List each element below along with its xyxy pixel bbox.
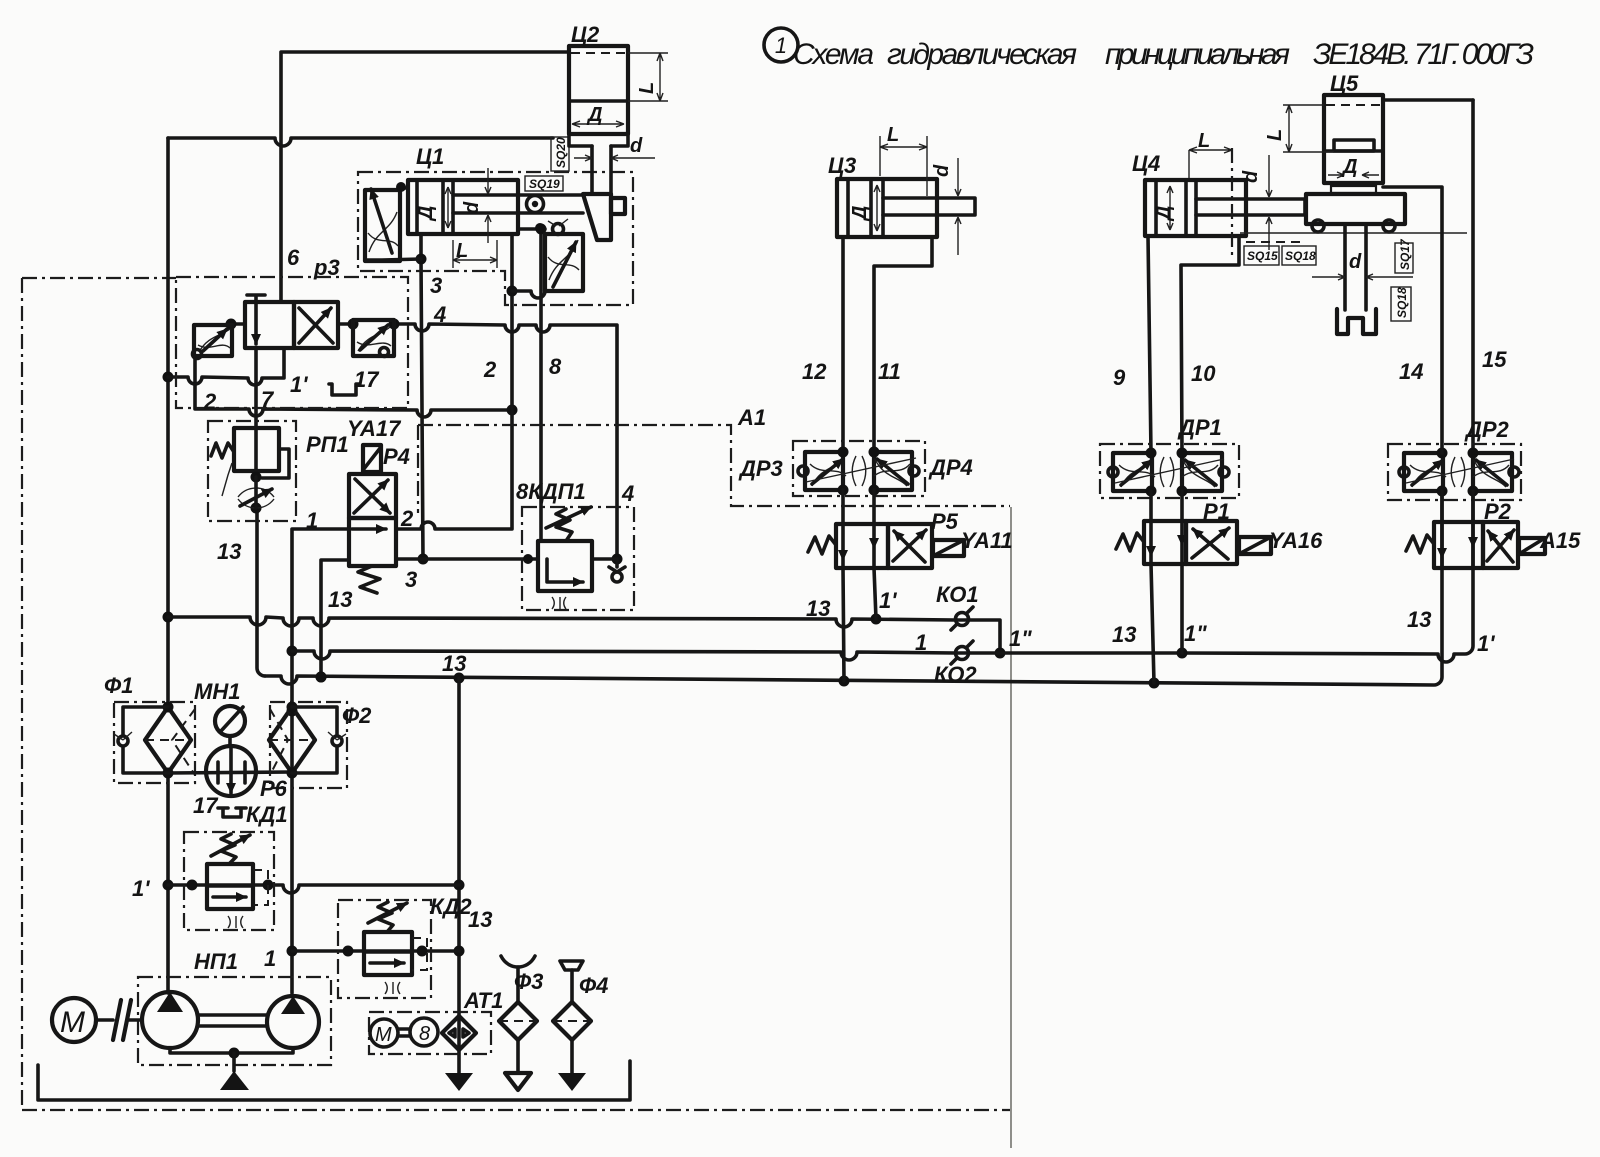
svg-text:L: L (456, 240, 468, 262)
svg-text:1': 1' (1477, 631, 1495, 656)
svg-text:РП1: РП1 (306, 432, 349, 457)
cylinder Ц2 body (569, 46, 628, 134)
node KD2 left (343, 946, 354, 957)
node KO1 to KO2 junction (995, 648, 1006, 659)
svg-text:1": 1" (1184, 621, 1207, 646)
svg-text:принципиальная: принципиальная (1105, 38, 1290, 71)
cylinder Ц5 L dimension (1283, 105, 1334, 152)
cylinder Ц5 carriage (1306, 194, 1405, 224)
svg-text:2: 2 (400, 506, 414, 531)
svg-text:1': 1' (132, 876, 150, 901)
pump unit НП1 dash-dot enclosure (138, 977, 331, 1065)
paper crease line (1010, 507, 1012, 1148)
svg-text:1: 1 (775, 33, 787, 58)
wire: P4 port 1 line down to bus2 and filter F2 pump line 1 (292, 529, 349, 993)
КД2 pilot box dashed (412, 938, 427, 970)
drawing frame dash-dot left (21, 278, 23, 1110)
node line8 top (536, 224, 547, 235)
svg-text:р3: р3 (313, 255, 340, 280)
node P4 13 joins bus3 (316, 672, 327, 683)
cylinder Ц5 fork (1337, 309, 1376, 334)
svg-text:АТ1: АТ1 (463, 988, 503, 1013)
wire: line 3 from C1 cap end down to P4 port3/8KDP1, hops over 4,2',1 lines (421, 234, 423, 559)
breather filter Ф3 (501, 956, 535, 967)
svg-text:d: d (461, 201, 483, 214)
wire: RP1 output line 13 down to bus3 (257, 508, 265, 676)
svg-text:НП1: НП1 (194, 949, 238, 974)
svg-text:4: 4 (621, 481, 634, 506)
svg-text:Д: Д (1341, 156, 1357, 178)
svg-text:13: 13 (806, 596, 830, 621)
cylinder Ц2 L dimension (628, 53, 668, 101)
gauge selector Р6 (206, 746, 256, 796)
node line3 at left throttle join (416, 254, 427, 265)
wire: line 4 from P3 right port to 8KDP1 right side, hops over 3,2,8 (394, 324, 617, 559)
filter Ф2 dash-dot enclosure (270, 702, 347, 788)
svg-text:2: 2 (203, 389, 217, 414)
Р2 spring (1406, 535, 1434, 553)
svg-text:13: 13 (1112, 622, 1136, 647)
relief valve КД2 dash-dot enclosure (338, 900, 431, 998)
svg-text:Ф2: Ф2 (342, 703, 372, 728)
svg-text:M: M (375, 1024, 392, 1046)
tank outline (38, 1061, 630, 1100)
svg-text:Р5: Р5 (931, 509, 959, 534)
КД2 drain bracket (385, 982, 400, 994)
svg-text:3: 3 (405, 567, 417, 592)
node line2/line from P3 (507, 405, 518, 416)
wire: left flow control bottom to line 3 (365, 259, 421, 261)
valve Р3 dash-dot enclosure (176, 277, 408, 408)
node KD1 left (187, 880, 198, 891)
svg-text:12: 12 (802, 359, 827, 384)
svg-text:13: 13 (468, 907, 492, 932)
wire: P3 port 1' to line 1' with hops over ports 2 and 7 (168, 348, 284, 385)
wire: P3 port 2 line down and right to line 2 (to C1 rod side) (195, 358, 512, 417)
flow control valve right of Ц1 (with check bypass) (518, 227, 545, 231)
node line3 at P4/8KDP1 (418, 554, 429, 565)
filter Ф1 diamond (145, 707, 191, 773)
node bus3 at AT1 branch (454, 673, 465, 684)
svg-text:КД1: КД1 (246, 802, 288, 827)
node F2 top (287, 706, 298, 717)
svg-text:Ф4: Ф4 (579, 973, 608, 998)
cylinder Ц5 d dimension (1312, 274, 1413, 280)
coupling (96, 1018, 140, 1022)
suction line to tank (170, 1048, 293, 1053)
bus 2 (line 1 pump2 pressure) with hops (292, 100, 1473, 662)
pump 1 (142, 992, 198, 1048)
svg-text:ДР1: ДР1 (1177, 415, 1222, 440)
svg-text:КО1: КО1 (936, 582, 979, 607)
throttle block ДР3/ДР4 dash-dot enclosure (793, 441, 925, 496)
electric motor M (52, 998, 96, 1042)
svg-text:15: 15 (1482, 347, 1507, 372)
throttle left of Р3 (194, 325, 232, 356)
svg-text:Р4: Р4 (383, 444, 410, 469)
throttle ДР1 left (1113, 453, 1152, 491)
wire: Р5 lines down to buses (843, 568, 844, 681)
svg-text:13: 13 (328, 587, 352, 612)
node bus1 left end (163, 612, 174, 623)
flow control valve left of Ц1 (365, 190, 400, 261)
Р5 spring (808, 536, 836, 554)
cylinder Ц1 rod d dimension (487, 168, 489, 243)
svg-text:ДР3: ДР3 (738, 456, 783, 481)
pump 2 (267, 996, 319, 1048)
wire: 8КДП1 outlet right (592, 559, 617, 567)
svg-text:2: 2 (483, 357, 497, 382)
throttle ДР3 (805, 452, 843, 490)
svg-text:d: d (1240, 170, 1262, 183)
svg-text:9: 9 (1113, 365, 1126, 390)
АТ1 fan pump (410, 1018, 438, 1046)
valve Р3 left side port link (231, 322, 245, 326)
node bus3 at P1 13 (1149, 678, 1160, 689)
solenoid valve Р4 solenoid YA17 (363, 445, 381, 472)
node on line 1' at y377 (163, 372, 174, 383)
wire: line 8 from C1 rod throttle top to valve 8KDP1 (539, 229, 543, 541)
wire: Ц5 rod side port to line 14 (1383, 187, 1442, 453)
svg-text:d: d (931, 164, 953, 177)
node bus3 at P4 line (316, 672, 327, 683)
svg-text:Ц3: Ц3 (828, 153, 856, 178)
wire: Р1 lines down to buses (1151, 564, 1154, 683)
svg-text:1: 1 (264, 946, 276, 971)
cylinder Ц2 d dimension (574, 155, 655, 161)
svg-text:1': 1' (879, 588, 897, 613)
cylinder Ц1 body (408, 180, 518, 234)
tank symbol below АТ1 (445, 1073, 473, 1091)
title circled 1 (764, 28, 798, 62)
throttle ДР2 left (1404, 453, 1443, 491)
svg-text:Ц1: Ц1 (416, 144, 444, 169)
svg-text:13: 13 (217, 539, 241, 564)
svg-text:гидравлическая: гидравлическая (887, 38, 1077, 71)
cylinder Ц5 ram (1345, 224, 1366, 310)
throttle right of Р3 (353, 320, 394, 356)
svg-text:YA11: YA11 (961, 528, 1013, 553)
reducing valve РП1 dash-dot enclosure (208, 421, 296, 521)
cylinder Ц4 body (1145, 180, 1246, 236)
svg-text:14: 14 (1399, 359, 1423, 384)
relief valve КД1 body (207, 864, 253, 909)
throttle ДР1 right (1182, 453, 1222, 491)
bracket joining rods of Ц1 and Ц2 (583, 194, 611, 240)
node 8KDP1 right (612, 554, 623, 565)
svg-text:8: 8 (419, 1023, 430, 1045)
wire: KD2 row line 1 (292, 949, 459, 953)
8КДП1 spring and adjust arrow (556, 509, 572, 541)
limit switch SQ20 (rotated) (551, 137, 569, 171)
wire: P4 port 3 link (short) (396, 557, 423, 561)
cylinder Ц1 rod (453, 195, 583, 213)
node bus1 P5 1' (871, 614, 882, 625)
solenoid valve Р2 left position (1434, 522, 1483, 568)
svg-text:Д: Д (1153, 206, 1175, 222)
svg-text:L: L (1198, 130, 1210, 152)
svg-text:ДР4: ДР4 (928, 455, 973, 480)
wire: pipe to cylinder C2 cap end (port 6) (281, 52, 569, 302)
check valve КО2 (956, 647, 969, 660)
valve Р4 lower position with through arrow (349, 518, 396, 566)
pump shaft (198, 1015, 267, 1026)
filter Ф1 dash-dot enclosure (114, 702, 195, 783)
valve Р3 straight path in left square (254, 303, 258, 344)
node pump2 line KD2 branch (287, 946, 298, 957)
cylinder Ц1 dash-dot enclosure (358, 172, 633, 305)
svg-text:ЗЕ184В. 71Г. 000ГЗ: ЗЕ184В. 71Г. 000ГЗ (1313, 38, 1534, 71)
svg-text:Ф3: Ф3 (514, 969, 543, 994)
svg-text:8: 8 (549, 354, 562, 379)
solenoid valve Р5 left position (836, 524, 888, 568)
solenoid valve Р5 right position crossed (888, 524, 932, 568)
svg-text:6: 6 (287, 245, 300, 270)
svg-text:8КДП1: 8КДП1 (516, 479, 586, 504)
pressure gauge МН1 (215, 706, 245, 736)
svg-text:Ц2: Ц2 (571, 22, 600, 47)
svg-text:A15: A15 (1539, 528, 1581, 553)
wire: C1 right throttle bottom to line 2, hop over line 8 (512, 291, 549, 298)
8КДП1 check valve (612, 572, 622, 582)
brake valve 8КДП1 body (538, 541, 592, 591)
drawing frame dash-dot bottom (22, 1109, 1010, 1111)
svg-text:4: 4 (433, 302, 446, 327)
cylinder Ц1 rod eye (527, 196, 544, 213)
wire: line 9 from Ц4 cap end down to ДР1 (1148, 236, 1151, 453)
valve Р4 upper position with crossed arrows (349, 474, 396, 518)
wire: P4 drain port 13 down to bus3 (321, 560, 349, 677)
drain symbol 17 under Р6 (218, 808, 246, 817)
svg-text:3: 3 (430, 273, 442, 298)
wire: filter bottoms through Р6 (168, 772, 292, 773)
bus 1 (line 1' pump1 pressure) with hops (168, 617, 1000, 653)
solenoid valve Р1 right position crossed (1186, 521, 1237, 564)
cylinder Ц4 bore arrows (1167, 186, 1173, 230)
wire: lines 9/10 from ДР1 down to Р1 (1151, 491, 1182, 521)
РП1 throttle arcs (238, 488, 274, 497)
Р5 solenoid YA11 (933, 540, 964, 556)
wire: line 2 from C1 rod side down to P4 port 2, hop over line 3 (396, 234, 512, 529)
8КДП1 drain bracket (552, 597, 566, 609)
Р1 spring (1116, 533, 1144, 551)
svg-text:Р1: Р1 (1203, 499, 1230, 524)
svg-text:Д: Д (586, 104, 602, 126)
Р2 solenoid A15 (1519, 538, 1545, 554)
РП1 bypass loop (262, 449, 289, 478)
svg-text:L: L (887, 124, 899, 146)
wire: pipe to C2 rod end, with hop over line 6 (168, 138, 553, 146)
check valve КО1 (956, 613, 969, 626)
svg-text:L: L (636, 82, 658, 94)
svg-text:13: 13 (1407, 607, 1431, 632)
wire: lines 14/15 from ДР2 down to Р2 (1442, 491, 1473, 522)
svg-text:Р2: Р2 (1484, 499, 1512, 524)
svg-text:SQ17: SQ17 (1398, 238, 1412, 270)
node KD1 right (263, 880, 274, 891)
svg-text:M: M (60, 1006, 85, 1039)
node bus3 at P5 13 (839, 676, 850, 687)
node line2 top at C1 throttle return (507, 286, 518, 297)
svg-text:1": 1" (1009, 626, 1032, 651)
svg-text:КО2: КО2 (934, 662, 977, 687)
filter Ф2 bypass check (292, 707, 337, 773)
limit switch SQ17 (rotated) (1395, 243, 1413, 273)
cylinder Ц3 L dimension (880, 136, 927, 196)
svg-text:Схема: Схема (793, 38, 874, 71)
svg-text:1': 1' (290, 372, 308, 397)
svg-text:Р6: Р6 (260, 776, 288, 801)
valve Р4 return spring (358, 566, 380, 593)
throttle ДР2 right (1473, 453, 1512, 491)
svg-text:Ц4: Ц4 (1132, 151, 1160, 176)
svg-text:17: 17 (354, 367, 380, 392)
ДР3/4 center arcs (852, 456, 866, 486)
svg-text:10: 10 (1191, 361, 1216, 386)
relief valve КД2 body (364, 932, 412, 975)
КД1 spring (221, 834, 236, 864)
node AT1 line at KD2 row (454, 946, 465, 957)
throttle ДР4 (874, 452, 912, 490)
svg-text:d: d (630, 135, 643, 157)
wire: P3 port 7 down to RP1 (254, 348, 258, 428)
node P4 line1 joins bus2 (287, 646, 298, 657)
svg-text:17: 17 (193, 793, 219, 818)
КД1 drain bracket (228, 916, 243, 928)
fill filter Ф4 (560, 961, 583, 970)
relief valve КД1 dash-dot enclosure (184, 832, 274, 930)
wire: line 12 from Ц3 cap end down to ДР3 (841, 237, 845, 452)
valve Р3 right side port link (338, 322, 353, 326)
filter Ф1 bypass check (123, 707, 168, 773)
cylinder Ц1 stroke L dimension (453, 240, 497, 268)
node KD2 right (417, 946, 428, 957)
КД2 spring (378, 902, 393, 932)
bus 3 (line 13 tank return) (265, 491, 1442, 685)
plugged port 17 of Р3 (329, 384, 359, 395)
reducing valve РП1 body (234, 428, 279, 471)
limit switch SQ15 (1244, 246, 1279, 265)
svg-text:SQ18: SQ18 (1285, 249, 1316, 263)
cylinder Ц4 d dimension (1266, 155, 1272, 250)
svg-text:SQ20: SQ20 (554, 137, 568, 168)
node 8KDP1 left (523, 554, 533, 564)
svg-text:YA16: YA16 (1269, 528, 1323, 553)
svg-text:11: 11 (878, 359, 901, 384)
filter Ф2 diamond (269, 707, 315, 773)
solenoid valve Р2 right position crossed (1483, 522, 1518, 568)
limit switch SQ18 lower (rotated) (1391, 287, 1411, 321)
svg-text:L: L (1264, 129, 1286, 141)
wire: line 11 from Ц3 rod end down to ДР4 (874, 237, 932, 452)
throttle block ДР2 dash-dot enclosure (1388, 444, 1521, 500)
wire: AT1 return line from bus3 through coolers to tank (457, 678, 461, 1073)
svg-text:Д: Д (415, 206, 437, 222)
svg-text:7: 7 (261, 387, 275, 412)
svg-text:1: 1 (306, 508, 318, 533)
КД1 pilot box dashed (253, 870, 268, 905)
solenoid valve Р1 left position (1144, 521, 1186, 564)
svg-text:КД2: КД2 (430, 894, 472, 919)
brake valve 8КДП1 dash-dot enclosure (522, 507, 634, 610)
ДР2 center arcs (1451, 457, 1465, 487)
wire: 8KDP1 inlet line from node 3 (423, 557, 538, 561)
heat exchanger unit АТ1 dash-dot enclosure (369, 1012, 491, 1054)
cylinder Ц3 body (837, 179, 937, 237)
cylinder Ц3 rod (883, 198, 975, 215)
svg-text:Ф1: Ф1 (104, 673, 133, 698)
svg-text:МН1: МН1 (194, 679, 240, 704)
svg-text:Д: Д (849, 206, 871, 222)
limit switch SQ18 (1282, 246, 1316, 265)
svg-text:YA17: YA17 (347, 416, 402, 441)
machine unit А1 dash-dot boundary (418, 425, 1010, 506)
throttle block ДР1 dash-dot enclosure (1100, 444, 1239, 498)
limit switch SQ19 (525, 176, 563, 191)
svg-text:ДР2: ДР2 (1464, 417, 1510, 442)
wire: Ц5 top port to line 15 (1383, 98, 1473, 102)
cylinder Ц1 bore dimension arrow (447, 187, 449, 228)
node at filter F1 line / KD1 branch (163, 880, 174, 891)
node AT1 line at KD1 row (454, 880, 465, 891)
cylinder Ц3 d dimension (955, 158, 961, 255)
valve Р3 left position square (245, 302, 294, 348)
АТ1 fan motor (370, 1019, 398, 1047)
node bus2 DR1 line 1'' (1177, 648, 1188, 659)
cylinder Ц4 L dimension (1189, 147, 1232, 178)
cylinder Ц3 bore arrows (874, 185, 880, 231)
svg-text:SQ18: SQ18 (1395, 287, 1409, 318)
valve Р3 pilot plunger on top (247, 295, 265, 302)
svg-text:13: 13 (442, 651, 466, 676)
wire: lines 12/11 from ДР block down to Р5 (843, 490, 874, 524)
valve Р3 right position square with crossed arrows (294, 302, 338, 348)
cylinder Ц2 rod down to bracket (592, 146, 611, 194)
svg-text:SQ19: SQ19 (529, 177, 560, 191)
svg-text:А1: А1 (737, 405, 766, 430)
svg-text:Ц5: Ц5 (1330, 71, 1359, 96)
drawing frame dash-dot top segment to P3 (22, 277, 176, 279)
svg-text:d: d (1349, 251, 1362, 273)
РП1 spring (211, 443, 234, 458)
cylinder Ц4 rod (1196, 199, 1305, 215)
Р1 solenoid YA16 (1239, 537, 1271, 554)
cylinder Ц5 body (1324, 95, 1383, 183)
wire: main line from C2 pipe down to filter F1 and pump NP1 (line 1') (166, 138, 170, 707)
wire: line 10 from Ц4 rod end down to ДР1 (1181, 236, 1239, 453)
ДР1 center arcs (1160, 457, 1174, 487)
svg-text:1: 1 (915, 630, 927, 655)
svg-text:SQ15: SQ15 (1247, 249, 1278, 263)
АТ1 cooler diamond (442, 1016, 476, 1050)
wire: KD1 row line 1' (168, 885, 459, 893)
